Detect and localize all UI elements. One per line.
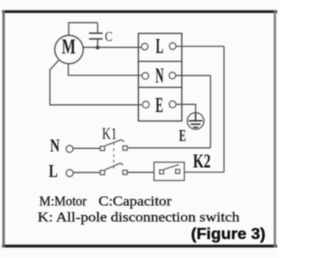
switch K2 lever xyxy=(164,165,179,170)
capacitor C plates xyxy=(89,33,103,39)
node L supply circle xyxy=(66,170,73,177)
terminal E right circle xyxy=(169,101,176,108)
wire capacitor bottom stem xyxy=(97,39,99,48)
terminal block outline xyxy=(138,33,181,121)
svg-text:N: N xyxy=(50,137,60,156)
switch K1 pole 2 lever xyxy=(105,163,123,170)
switch K2 right contact xyxy=(176,169,180,173)
wire E right to earth xyxy=(176,104,196,112)
wire motor top stem xyxy=(68,23,70,36)
wire N supply to K1 xyxy=(73,147,100,149)
svg-text:(Figure 3): (Figure 3) xyxy=(191,226,266,243)
wire capacitor top stem xyxy=(97,23,99,33)
switch K1 pole 1 right contact xyxy=(123,146,127,150)
terminal L right circle xyxy=(169,43,176,50)
terminal L left circle xyxy=(141,43,148,50)
switch K1 gang dashed link xyxy=(113,143,115,169)
terminal block divider 1 xyxy=(138,60,181,62)
wire motor right to terminal L xyxy=(83,46,141,48)
node N supply circle xyxy=(66,145,73,152)
terminal N left circle xyxy=(142,73,149,80)
svg-text:N: N xyxy=(155,64,164,88)
wire motor earth diagonal to terminal E xyxy=(50,60,142,105)
terminal N right circle xyxy=(169,72,176,79)
svg-text:L: L xyxy=(156,34,164,58)
switch K2 left contact xyxy=(160,170,164,174)
terminal E left circle xyxy=(142,101,149,108)
switch K1 pole 2 left contact xyxy=(100,170,104,174)
junction dot at capacitor tap xyxy=(96,46,100,50)
wire top horizontal to capacitor xyxy=(68,22,98,24)
wire N right to corner xyxy=(176,75,211,77)
wire L supply to K1 xyxy=(73,172,100,174)
wire N vertical drop xyxy=(210,76,212,148)
wire K1 pole 2 to K2 xyxy=(127,171,154,173)
svg-text:C:Capacitor: C:Capacitor xyxy=(99,193,173,208)
terminal block divider 2 xyxy=(138,86,181,88)
svg-text:K2: K2 xyxy=(193,150,211,172)
wire right vertical L drop xyxy=(223,46,225,172)
svg-text:M:Motor: M:Motor xyxy=(39,193,87,208)
svg-text:M: M xyxy=(62,35,76,58)
switch K2 box xyxy=(154,162,184,180)
wire motor bottom to terminal N xyxy=(68,64,141,76)
wire K2 right to vertical xyxy=(184,171,224,173)
switch K1 pole 1 left contact xyxy=(100,146,104,150)
motor M1 circle xyxy=(55,35,83,63)
switch K1 pole 2 right contact xyxy=(123,170,127,174)
svg-text:K: All-pole disconnection swit: K: All-pole disconnection switch xyxy=(38,210,240,225)
svg-text:C: C xyxy=(105,29,113,44)
switch K1 pole 1 lever xyxy=(105,140,124,146)
earth symbol bars xyxy=(189,113,203,127)
earth symbol circle xyxy=(187,113,204,130)
svg-text:K1: K1 xyxy=(102,125,117,143)
svg-text:E: E xyxy=(179,127,186,146)
svg-text:L: L xyxy=(49,162,58,181)
border frame xyxy=(2,10,277,247)
wire L right to corner xyxy=(176,45,224,47)
svg-text:E: E xyxy=(156,93,164,117)
wire N horizontal to switch K1 xyxy=(128,147,210,149)
